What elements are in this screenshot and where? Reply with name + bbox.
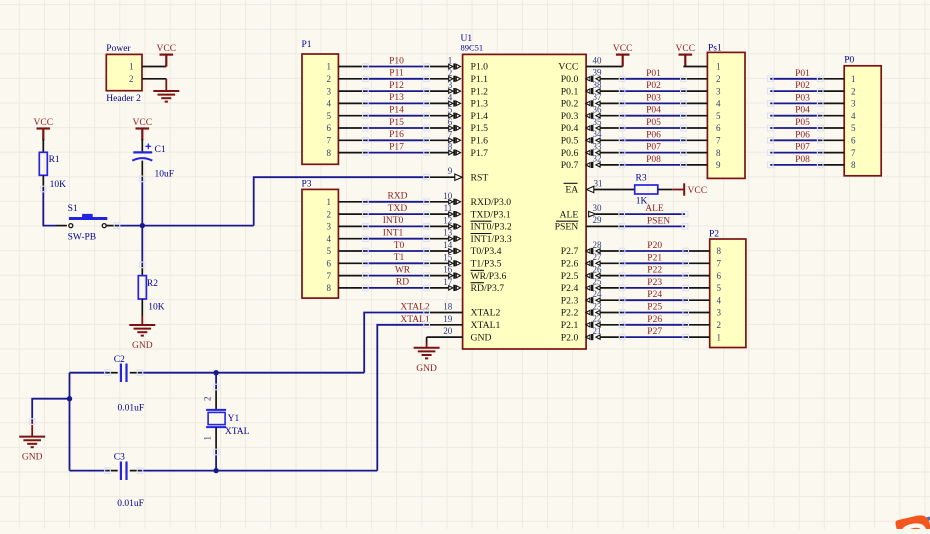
U1 pin 12 (INT0/P3.2) (427, 225, 449, 227)
pin 6 stub (P1) (338, 127, 365, 129)
svg-text:29: 29 (593, 215, 603, 225)
svg-text:P05: P05 (795, 118, 810, 128)
power port GND (U1 pin20) (414, 347, 440, 349)
power port GND (R2) (129, 324, 155, 326)
wire net P06 (622, 139, 683, 141)
U1 pin 22 (P2.1) (600, 324, 622, 326)
svg-text:GND: GND (471, 332, 492, 343)
svg-text:C1: C1 (155, 145, 166, 155)
svg-text:17: 17 (443, 277, 453, 287)
svg-text:P02: P02 (795, 81, 810, 91)
junction GND branch (67, 396, 72, 401)
svg-text:PSEN: PSEN (555, 222, 579, 233)
pin 5 stub (P3) (338, 250, 365, 252)
svg-text:8: 8 (716, 148, 721, 158)
svg-text:P23: P23 (647, 278, 662, 288)
pin 8 stub (Ps1) (683, 152, 707, 154)
junction XTAL1/Y1 (213, 468, 218, 473)
svg-text:0.01uF: 0.01uF (117, 499, 144, 509)
U1 pin 29 (PSEN) (586, 225, 622, 227)
wire net P25 (622, 312, 686, 314)
svg-text:P22: P22 (647, 266, 662, 276)
capacitor C1 plus sign (146, 145, 152, 147)
svg-text:24: 24 (593, 289, 603, 299)
U1 pin 26 (P2.5) (600, 275, 622, 277)
wire net P14 (365, 115, 426, 117)
svg-text:8: 8 (327, 283, 332, 293)
wire Power pin2 to GND (142, 78, 166, 80)
svg-text:T1/P3.5: T1/P3.5 (471, 259, 502, 270)
svg-text:8: 8 (327, 148, 332, 158)
pin 4 stub (P0) (820, 115, 844, 117)
U1 pin 11 (TXD/P3.1) (427, 213, 449, 215)
U1 pin 16 (WR/P3.6) (427, 275, 449, 277)
svg-text:T0: T0 (394, 241, 405, 251)
svg-text:P08: P08 (646, 155, 661, 165)
pin 7 stub (P1) (338, 139, 365, 141)
svg-text:RD/P3.7: RD/P3.7 (471, 283, 505, 294)
svg-text:T0/P3.4: T0/P3.4 (471, 246, 502, 257)
svg-text:VCC: VCC (688, 186, 708, 196)
wire net P17 (365, 152, 426, 154)
wire net P22 (622, 275, 686, 277)
pin 6 stub (P3) (338, 262, 365, 264)
svg-text:6: 6 (851, 136, 856, 146)
U1 pin 6 (P1.5) (427, 127, 449, 129)
svg-text:P1.2: P1.2 (471, 86, 489, 97)
pin 2 stub (P2) (686, 324, 710, 326)
svg-text:4: 4 (717, 295, 722, 305)
pin 3 stub (P3) (338, 225, 365, 227)
svg-text:PSEN: PSEN (647, 216, 670, 226)
svg-text:XTAL2: XTAL2 (471, 308, 501, 319)
svg-text:14: 14 (443, 240, 453, 250)
svg-text:Ps1: Ps1 (708, 44, 722, 54)
pin 6 stub (P0) (820, 139, 844, 141)
svg-text:P04: P04 (646, 106, 661, 116)
pin 7 stub (Ps1) (683, 139, 707, 141)
pin 2 stub (P0) (820, 90, 844, 92)
svg-text:2: 2 (327, 74, 332, 84)
pin 3 stub (P1) (338, 90, 365, 92)
wire net PSEN (622, 225, 685, 227)
svg-text:10: 10 (443, 191, 453, 201)
svg-text:33: 33 (593, 141, 603, 151)
svg-text:2: 2 (327, 209, 332, 219)
svg-text:P21: P21 (647, 253, 662, 263)
svg-text:P2.1: P2.1 (561, 320, 579, 331)
svg-text:P0: P0 (844, 56, 854, 66)
wire net P10 (365, 66, 426, 68)
wire R2 to GND (141, 299, 143, 316)
svg-text:19: 19 (443, 314, 453, 324)
connector P1 body (302, 54, 338, 164)
svg-text:8: 8 (448, 142, 453, 152)
wire net P02 (right) (770, 90, 820, 92)
svg-text:P2.0: P2.0 (561, 332, 579, 343)
wire net P06 (right) (770, 139, 820, 141)
resistor R3 (635, 185, 658, 194)
svg-text:GND: GND (416, 364, 437, 374)
U1 pin 27 (P2.6) (600, 262, 622, 264)
connector Ps1 body (707, 52, 745, 178)
svg-text:1: 1 (327, 62, 332, 72)
pin 9 stub (Ps1) (683, 164, 707, 166)
U1 pin 2 (P1.1) (427, 78, 449, 80)
pin 1 stub (P1) (338, 66, 365, 68)
svg-text:7: 7 (716, 136, 721, 146)
svg-text:8: 8 (851, 160, 856, 170)
wire XTAL1 net bottom (70, 470, 108, 472)
wire net P20 (622, 250, 686, 252)
wire net P23 (622, 287, 686, 289)
svg-text:INT1: INT1 (383, 229, 404, 239)
svg-text:3: 3 (327, 86, 332, 96)
wire net P07 (right) (770, 152, 820, 154)
svg-text:P1.4: P1.4 (471, 111, 489, 122)
svg-text:INT0/P3.2: INT0/P3.2 (471, 222, 512, 233)
U1 pin 37 (P0.2) (600, 102, 622, 104)
connector P0 body (844, 66, 881, 176)
svg-text:RXD: RXD (387, 192, 407, 202)
U1 pin 25 (P2.4) (600, 287, 622, 289)
svg-text:P06: P06 (795, 130, 810, 140)
svg-text:P11: P11 (389, 69, 404, 79)
svg-text:P25: P25 (647, 303, 662, 313)
svg-text:P27: P27 (647, 327, 662, 337)
wire net RD (365, 287, 426, 289)
pin 5 stub (P2) (686, 287, 710, 289)
svg-text:P1.3: P1.3 (471, 99, 489, 110)
svg-text:5: 5 (716, 111, 721, 121)
U1 pin 13 (INT1/P3.3) (427, 238, 449, 240)
connector JP Power (Header 2) (106, 54, 142, 90)
wire R1 to S1 (42, 175, 44, 189)
overbar EA (564, 182, 578, 184)
svg-text:6: 6 (448, 117, 453, 127)
U1 pin 17 (RD/P3.7) (427, 287, 449, 289)
svg-text:4: 4 (327, 99, 332, 109)
svg-text:RD: RD (396, 278, 409, 288)
svg-text:15: 15 (443, 252, 453, 262)
svg-text:P1.6: P1.6 (471, 136, 489, 147)
pin 3 stub (P2) (686, 312, 710, 314)
svg-text:P0.1: P0.1 (561, 86, 579, 97)
U1 pin 14 (T0/P3.4) (427, 250, 449, 252)
U1 pin 5 (P1.4) (427, 115, 449, 117)
capacitor C1 (133, 151, 152, 153)
U1 pin 4 (P1.3) (427, 102, 449, 104)
wire net P05 (622, 127, 683, 129)
U1 pin 19 stub (427, 324, 463, 326)
svg-text:P07: P07 (795, 143, 810, 153)
svg-text:P20: P20 (647, 241, 662, 251)
svg-text:ALE: ALE (559, 209, 578, 220)
svg-text:89C51: 89C51 (461, 43, 484, 53)
wire net P12 (365, 90, 426, 92)
svg-text:P0.3: P0.3 (561, 111, 579, 122)
svg-text:P0.5: P0.5 (561, 136, 579, 147)
connector P2 body (710, 239, 746, 348)
U1 pin 7 (P1.6) (427, 139, 449, 141)
svg-text:VCC: VCC (558, 62, 578, 73)
wire net P02 (622, 90, 683, 92)
U1 pin 1 (P1.0) (427, 66, 449, 68)
svg-text:39: 39 (593, 68, 603, 78)
wire net P27 (622, 336, 686, 338)
U1 pin 24 (P2.3) (600, 299, 622, 301)
svg-text:P13: P13 (389, 93, 404, 103)
svg-text:37: 37 (593, 92, 603, 102)
U1 pin 31 (EA) (586, 186, 593, 192)
svg-text:P03: P03 (646, 93, 661, 103)
svg-text:P2.6: P2.6 (561, 259, 579, 270)
svg-text:XTAL2: XTAL2 (400, 303, 430, 313)
svg-text:P17: P17 (389, 142, 404, 152)
svg-text:VCC: VCC (133, 118, 153, 128)
svg-text:Power: Power (106, 44, 131, 54)
pin 7 stub (P0) (820, 152, 844, 154)
svg-text:3: 3 (327, 222, 332, 232)
wire to left GND (32, 399, 69, 422)
pin 2 stub (Ps1) (683, 78, 707, 80)
wire net P03 (right) (770, 102, 820, 104)
pin 5 stub (P0) (820, 127, 844, 129)
wire net T1 (365, 262, 426, 264)
svg-text:2: 2 (717, 320, 722, 330)
pin 3 stub (P0) (820, 102, 844, 104)
svg-text:1: 1 (851, 74, 856, 84)
U1 pin 3 (P1.2) (427, 90, 449, 92)
pin 1 stub (P3) (338, 201, 365, 203)
wire VCC to C1 (141, 139, 143, 152)
svg-text:VCC: VCC (34, 118, 54, 128)
svg-text:10K: 10K (50, 180, 67, 190)
svg-text:16: 16 (443, 265, 453, 275)
svg-text:25: 25 (593, 277, 603, 287)
U1 pin 28 (P2.7) (600, 250, 622, 252)
svg-text:XTAL1: XTAL1 (400, 315, 430, 325)
wire net P13 (365, 102, 426, 104)
svg-text:TXD: TXD (388, 204, 408, 214)
wire S1 to net RST (106, 225, 117, 227)
svg-text:INT0: INT0 (383, 216, 404, 226)
pin 4 stub (Ps1) (683, 102, 707, 104)
svg-text:P1: P1 (302, 40, 312, 50)
svg-text:6: 6 (716, 123, 721, 133)
svg-text:7: 7 (448, 129, 453, 139)
svg-text:20: 20 (443, 326, 453, 336)
wire net ALE (622, 213, 685, 215)
U1 pin 36 (P0.3) (600, 115, 622, 117)
svg-text:2: 2 (448, 68, 453, 78)
svg-text:P0.0: P0.0 (561, 74, 579, 85)
svg-text:8: 8 (717, 246, 722, 256)
svg-text:35: 35 (593, 117, 603, 127)
svg-text:34: 34 (593, 129, 603, 139)
svg-text:P0.6: P0.6 (561, 148, 579, 159)
svg-text:WR/P3.6: WR/P3.6 (471, 271, 507, 282)
svg-text:C2: C2 (114, 355, 125, 365)
svg-text:WR: WR (395, 265, 411, 275)
svg-text:2: 2 (203, 397, 213, 402)
overbar INT1 (471, 233, 492, 235)
svg-text:9: 9 (448, 166, 453, 176)
svg-text:P02: P02 (646, 81, 661, 91)
U1 pin 18 stub (427, 312, 463, 314)
svg-text:1: 1 (716, 62, 721, 72)
svg-text:C3: C3 (114, 453, 125, 463)
svg-text:22: 22 (593, 314, 602, 324)
pin 4 stub (P1) (338, 102, 365, 104)
switch S1 button (82, 214, 93, 217)
wire net P15 (365, 127, 426, 129)
U1 pin 34 (P0.5) (600, 139, 622, 141)
svg-text:RXD/P3.0: RXD/P3.0 (471, 197, 512, 208)
svg-text:P2.4: P2.4 (561, 283, 579, 294)
svg-text:INT1/P3.3: INT1/P3.3 (471, 234, 512, 245)
U1 pin 15 (T1/P3.5) (427, 262, 449, 264)
svg-text:P03: P03 (795, 93, 810, 103)
svg-text:P0.4: P0.4 (561, 123, 579, 134)
svg-text:7: 7 (327, 136, 332, 146)
capacitor C3 (120, 462, 122, 481)
svg-text:GND: GND (22, 453, 43, 463)
overbar PSEN (556, 220, 578, 222)
svg-text:31: 31 (594, 178, 603, 188)
svg-text:P07: P07 (646, 143, 661, 153)
svg-text:T1: T1 (394, 253, 405, 263)
pin 8 stub (P2) (686, 250, 710, 252)
svg-text:VCC: VCC (613, 44, 633, 54)
wire net P24 (622, 299, 686, 301)
resistor R1 (39, 152, 47, 175)
U1 pin 40 stub (586, 66, 623, 68)
svg-text:P3: P3 (302, 180, 312, 190)
svg-text:1: 1 (717, 332, 722, 342)
svg-text:EA: EA (565, 185, 578, 196)
pin 2 stub (P1) (338, 78, 365, 80)
wire R3 to VCC (658, 189, 672, 191)
svg-text:7: 7 (327, 271, 332, 281)
svg-text:3: 3 (716, 86, 721, 96)
pin 4 stub (P2) (686, 299, 710, 301)
power port VCC (R3) (672, 189, 684, 191)
svg-text:38: 38 (593, 80, 603, 90)
svg-text:P1.0: P1.0 (471, 62, 489, 73)
pin 5 stub (Ps1) (683, 115, 707, 117)
svg-text:5: 5 (851, 123, 856, 133)
wire VCC to Ps1 pin1 (683, 66, 707, 68)
power port GND (header pin2) (165, 79, 167, 91)
svg-text:P26: P26 (647, 315, 662, 325)
svg-text:Header 2: Header 2 (106, 94, 141, 104)
svg-text:12: 12 (443, 215, 452, 225)
svg-text:P1.7: P1.7 (471, 148, 489, 159)
wire Y1 pin2 (215, 373, 217, 387)
svg-text:32: 32 (593, 154, 602, 164)
svg-text:1: 1 (203, 436, 213, 441)
U1 pin 10 (RXD/P3.0) (427, 201, 449, 203)
overbar INT0 (471, 220, 492, 222)
U1 pin 30 (ALE) (589, 211, 596, 216)
wire VCC to R1 (42, 139, 44, 152)
watermark logo (895, 513, 930, 534)
wire net P01 (right) (770, 78, 820, 80)
wire net INT1 (365, 238, 426, 240)
wire junction to R2 (141, 226, 143, 265)
svg-text:TXD/P3.1: TXD/P3.1 (471, 209, 511, 220)
svg-text:P2: P2 (709, 229, 719, 239)
U1 pin 20 stub (GND) (427, 336, 463, 338)
svg-text:P2.7: P2.7 (561, 246, 579, 257)
svg-text:S1: S1 (68, 204, 78, 214)
svg-text:3: 3 (448, 80, 453, 90)
svg-text:27: 27 (593, 252, 603, 262)
pin 8 stub (P3) (338, 287, 365, 289)
svg-text:Y1: Y1 (228, 414, 240, 424)
svg-text:GND: GND (132, 341, 153, 351)
wire net INT0 (365, 225, 426, 227)
svg-text:9: 9 (716, 160, 721, 170)
wire left vertical (69, 373, 71, 471)
pin 8 stub (P1) (338, 152, 365, 154)
svg-text:21: 21 (593, 326, 602, 336)
wire net P03 (622, 102, 683, 104)
wire XTAL1 riser (377, 325, 426, 471)
IC U1 89C51 body (463, 54, 586, 349)
svg-text:40: 40 (593, 55, 603, 65)
pin 3 stub (Ps1) (683, 90, 707, 92)
svg-text:XTAL1: XTAL1 (471, 320, 501, 331)
svg-text:P2.5: P2.5 (561, 271, 579, 282)
pin 7 stub (P3) (338, 275, 365, 277)
wire XTAL2 riser (364, 313, 426, 373)
svg-text:6: 6 (717, 271, 722, 281)
svg-text:5: 5 (327, 111, 332, 121)
svg-text:P2.2: P2.2 (561, 308, 579, 319)
switch S1 left contact (69, 224, 73, 228)
wire Power pin1 to VCC (142, 66, 166, 68)
wire net P26 (622, 324, 686, 326)
svg-text:P10: P10 (389, 56, 404, 66)
svg-text:P0.2: P0.2 (561, 99, 579, 110)
svg-text:5: 5 (717, 283, 722, 293)
svg-text:R3: R3 (636, 173, 647, 183)
pin 2 stub (P3) (338, 213, 365, 215)
svg-text:1: 1 (129, 62, 134, 72)
svg-text:VCC: VCC (157, 44, 177, 54)
U1 pin 35 (P0.4) (600, 127, 622, 129)
U1 pin 32 (P0.7) (600, 164, 622, 166)
svg-text:P04: P04 (795, 106, 810, 116)
svg-text:13: 13 (443, 228, 453, 238)
capacitor C2 (120, 364, 122, 383)
svg-text:18: 18 (443, 302, 453, 312)
svg-text:P1.5: P1.5 (471, 123, 489, 134)
wire Y1 pin1 (215, 427, 217, 452)
pin 7 stub (P2) (686, 262, 710, 264)
svg-text:3: 3 (851, 99, 856, 109)
svg-text:7: 7 (717, 259, 722, 269)
svg-text:10uF: 10uF (155, 170, 175, 180)
svg-text:XTAL: XTAL (225, 427, 250, 437)
U1 pin 38 (P0.1) (600, 90, 622, 92)
svg-text:P15: P15 (389, 118, 404, 128)
svg-text:2: 2 (716, 74, 721, 84)
wire net P04 (right) (770, 115, 820, 117)
svg-text:36: 36 (593, 105, 603, 115)
